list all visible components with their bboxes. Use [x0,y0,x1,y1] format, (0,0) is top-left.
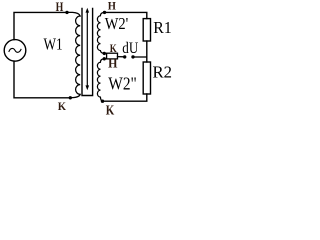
output terminal right [131,55,134,58]
wire bottom-left: source bottom to K node [14,61,70,98]
svg-text:H: H [108,1,116,13]
svg-text:W2': W2' [105,14,129,33]
transformer core (movable plunger, open-top box) [82,8,93,95]
svg-text:H: H [108,56,117,71]
wire: tap box to left output terminal [118,56,124,58]
svg-text:H: H [56,0,64,14]
displacement arrow (double-headed, core motion) [86,12,88,87]
svg-text:K: K [58,99,67,113]
node K (W2' end) [103,52,106,55]
svg-text:R2: R2 [153,63,173,82]
wire: H node to R1 top [105,12,147,18]
node K (primary bottom) [69,96,72,99]
winding W2' (upper secondary) [97,12,104,53]
svg-text:dU: dU [122,40,138,57]
svg-text:K: K [106,104,115,119]
resistor R2 [143,62,150,94]
output terminal left [123,55,126,58]
node K (W2'' end) [101,100,104,103]
winding W1 (primary coil) [67,12,80,97]
svg-text:W1: W1 [44,34,63,53]
resistor R1 [143,19,150,41]
arrowhead up (core motion) [86,8,90,13]
svg-text:K: K [110,41,117,55]
arrowhead down (core motion) [86,85,90,90]
node H (secondary top) [103,11,106,14]
wire: R1 bottom to R2 top [146,41,148,62]
AC source G1 [4,40,26,62]
winding W2'' (lower secondary) [97,59,104,101]
wire top-left: source top to H node [14,12,67,39]
node H (primary top) [65,11,68,14]
AC sine symbol [9,48,21,52]
svg-text:W2": W2" [108,74,137,94]
output link box (windings midpoint tap) [107,53,118,59]
node H (W2'' start) [103,57,106,60]
wire: R2 bottom to W2'' K node [103,94,147,101]
wire: right output terminal to R1/R2 midpoint [135,56,147,58]
svg-text:R1: R1 [153,18,172,37]
